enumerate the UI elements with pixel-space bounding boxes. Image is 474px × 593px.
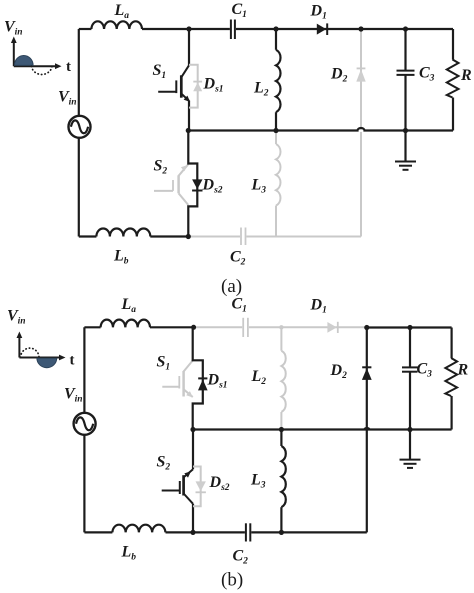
svg-text:C2: C2 <box>230 249 246 268</box>
inductor L2 (b) grey <box>281 327 285 429</box>
diode Ds2 (a) black branch with jog <box>188 131 197 237</box>
svg-text:L3: L3 <box>251 177 267 196</box>
svg-text:Ds2: Ds2 <box>202 177 223 196</box>
wire: bottom rail (b) left black <box>84 531 112 533</box>
svg-text:S2: S2 <box>157 454 171 473</box>
capacitor C3 (b) <box>402 328 418 430</box>
inductor L2 (a) <box>276 50 281 112</box>
wire: top rail (a) to C1 <box>142 28 230 30</box>
diode Ds2 (a) symbol <box>192 179 202 190</box>
wire: top rail (b) right black <box>367 326 452 328</box>
node: Lb/S2 junction (a) <box>186 234 191 239</box>
diode Ds1 (a) grey branch <box>189 65 202 108</box>
labels (a) <box>4 1 472 297</box>
svg-text:S1: S1 <box>153 62 167 81</box>
diode Ds2 (b) grey branch <box>193 467 206 507</box>
svg-text:S1: S1 <box>157 354 171 373</box>
node: S1/S2 midpoint junction (a) <box>186 128 191 133</box>
IGBT S1 (a) collector lead <box>188 29 190 65</box>
inductor L3 (b) black <box>281 430 285 533</box>
svg-text:Vin: Vin <box>7 308 26 327</box>
svg-text:D2: D2 <box>330 362 348 381</box>
svg-text:La: La <box>114 2 130 21</box>
svg-text:La: La <box>121 296 137 315</box>
svg-text:t: t <box>66 59 71 75</box>
wire: left vertical (b) top <box>83 327 85 412</box>
node: C1/L2/D1 junction (a) <box>273 26 278 31</box>
svg-text:C3: C3 <box>419 65 435 84</box>
wire: bottom rail (a) grey segment with C2 <box>188 228 361 246</box>
wire: top rail (a) C1 to right corner <box>236 28 453 30</box>
waveform icon (a) dotted negative half-cycle <box>32 66 53 74</box>
node: Lb/S2 junction (b) <box>190 530 195 535</box>
svg-text:C1: C1 <box>232 296 247 315</box>
svg-text:L2: L2 <box>251 368 267 387</box>
resistor R (b) <box>445 328 457 430</box>
AC source Vin (b) <box>74 413 96 435</box>
IGBT S1 (b) grey symbol <box>162 361 193 398</box>
node: La/S1/C1 junction (a) <box>186 26 191 31</box>
diode D1 (a) <box>317 23 327 35</box>
svg-text:D2: D2 <box>330 66 348 85</box>
capacitor C2 (b) <box>246 523 250 541</box>
wire: bottom rail (b) Lb to C2 <box>166 531 245 533</box>
capacitor C1 (a) <box>231 20 235 40</box>
capacitor C3 (a) <box>397 29 415 131</box>
wire: top rail (b) grey segment with C1, D1 <box>194 318 367 337</box>
ground (b) <box>400 430 421 468</box>
inductor L2 (a) bottom lead <box>275 112 277 130</box>
wire: bottom rail (a) left black <box>79 235 97 237</box>
junction dot grey (b) C1-L2 <box>279 325 283 329</box>
waveform icon (b) negative half-sine filled <box>37 358 57 367</box>
node: C3 top junction (a) <box>403 26 408 31</box>
wire: left vertical (a) bottom <box>78 138 80 237</box>
inductor La (b) <box>101 320 150 328</box>
node: L2/L3 junction (b) <box>279 427 284 432</box>
inductor La (a) <box>91 21 142 29</box>
svg-text:Vin: Vin <box>64 386 83 405</box>
wire: left vertical (a) top <box>78 29 80 116</box>
wire: middle rail (a) with crossover hump at D2 <box>188 128 453 131</box>
labels (b) <box>7 296 469 591</box>
svg-text:R: R <box>457 362 469 379</box>
node: D1/D2 junction (b) <box>364 325 369 330</box>
IGBT S2 (b) bottom lead <box>192 504 194 533</box>
IGBT S2 (a) grey symbol <box>154 164 188 205</box>
waveform icon (b) dotted positive half-cycle <box>21 348 39 357</box>
svg-text:L2: L2 <box>253 80 269 99</box>
svg-text:Ds1: Ds1 <box>203 76 224 95</box>
inductor L3 (a) grey <box>276 131 280 237</box>
svg-text:L3: L3 <box>250 472 266 491</box>
node: L2/L3 junction (a) <box>273 128 278 133</box>
svg-text:Ds1: Ds1 <box>207 372 228 391</box>
inductor Lb (b) <box>112 525 165 533</box>
svg-text:C3: C3 <box>417 361 433 380</box>
svg-text:C2: C2 <box>233 548 249 567</box>
svg-text:D1: D1 <box>310 297 327 316</box>
IGBT S1 (a) emitter lead <box>188 101 190 131</box>
svg-text:S2: S2 <box>154 158 168 177</box>
svg-text:C1: C1 <box>232 1 247 20</box>
diode D2 (b) vertical branch <box>362 328 372 533</box>
wire: top rail (a) left segment <box>79 28 92 30</box>
svg-text:Vin: Vin <box>4 19 23 38</box>
svg-text:t: t <box>70 353 75 369</box>
node: C3 top junction (b) <box>407 325 412 330</box>
wire: top rail (b) La to junction <box>150 326 194 328</box>
node: L3 bottom junction (b) <box>279 530 284 535</box>
ground (a) <box>395 131 416 170</box>
node: C3/ground junction (a) <box>403 128 408 133</box>
waveform icon (a) positive half-sine filled <box>14 56 33 66</box>
node: C3/ground junction (b) <box>407 427 412 432</box>
node: La/S1/C1 junction (b) <box>191 325 196 330</box>
wire: bottom rail (a) Lb to S2 <box>150 235 188 237</box>
IGBT S2 (b) symbol <box>162 469 193 504</box>
node: D1/D2 junction (a) <box>358 26 363 31</box>
inductor Lb (a) <box>96 229 150 237</box>
svg-text:Lb: Lb <box>113 248 129 267</box>
wire: bottom rail (b) C2 to D2 corner <box>251 531 366 533</box>
diode Ds1 (b) symbol <box>198 378 208 390</box>
waveform icon (a) axes <box>11 37 62 70</box>
node: S1/S2 midpoint junction (b) <box>190 427 195 432</box>
svg-text:D1: D1 <box>310 3 327 22</box>
resistor R (a) <box>447 29 459 131</box>
waveform icon (b) axes <box>17 332 66 361</box>
wire: top rail (b) left segment <box>84 326 100 328</box>
crossover hump at D2 (b) <box>363 427 370 430</box>
AC source Vin (a) <box>69 116 91 138</box>
diode D2 (a) grey vertical branch <box>356 29 365 237</box>
IGBT S1 (a) symbol <box>158 65 190 102</box>
svg-text:(a): (a) <box>221 276 242 297</box>
svg-text:Vin: Vin <box>58 89 77 108</box>
IGBT S2 (b) top lead <box>192 430 194 470</box>
wire: middle rail (b) with crossover hump at D2 <box>193 428 452 430</box>
svg-text:R: R <box>460 67 472 84</box>
svg-text:(b): (b) <box>221 570 243 591</box>
diode Ds1 (b) black branch with jog <box>193 327 203 429</box>
inductor L2 (a) top lead <box>275 29 277 50</box>
wire: left vertical (b) bottom <box>83 435 85 532</box>
svg-text:Ds2: Ds2 <box>209 474 230 493</box>
svg-text:Lb: Lb <box>121 544 137 563</box>
